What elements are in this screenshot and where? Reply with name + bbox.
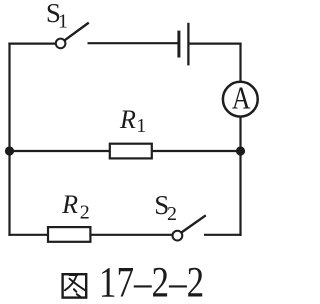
switch S2 [173,215,206,240]
wire bottom segment left (left wire to R2) [8,234,48,236]
node left junction [5,146,14,155]
label R2 [61,190,90,223]
resistor R1 [110,144,152,159]
label S2 [154,190,177,225]
label R1 [119,105,146,137]
node right junction [236,146,245,155]
svg-text:1: 1 [136,115,146,137]
wire bottom segment right (corner to switch S2) [204,234,242,236]
svg-text:2: 2 [167,203,177,225]
wire top segment right (battery to corner) [189,42,241,44]
wire bottom segment middle (R2 to switch S2) [91,234,173,236]
resistor R2 [48,227,90,242]
svg-text:R: R [61,190,78,219]
svg-text:1: 1 [58,11,68,33]
wire right vertical lower (node to bottom corner) [239,151,241,236]
wire middle segment left (left node to R1) [10,150,110,152]
wire top segment middle (switch S1 to battery) [88,42,178,44]
svg-text:2: 2 [80,201,90,223]
switch S1 [56,23,89,49]
wire right vertical middle (ammeter to node) [239,117,241,151]
svg-text:R: R [119,105,136,134]
wire top segment left [8,42,55,44]
wire middle segment right (R1 to right node) [152,150,241,152]
ammeter A [223,81,258,117]
caption character 图 (drawn) [63,274,87,297]
label S1 [46,0,68,33]
wire right vertical upper (corner to ammeter) [239,44,241,82]
svg-text:A: A [232,81,251,116]
svg-text:17–2–2: 17–2–2 [99,258,204,304]
wire left vertical [8,43,10,236]
battery (cell) [179,23,189,66]
